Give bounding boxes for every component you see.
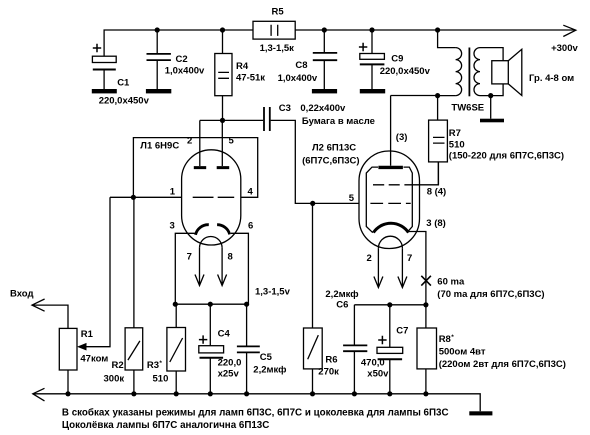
- svg-text:470,0: 470,0: [361, 358, 385, 369]
- svg-text:3 (8): 3 (8): [426, 218, 446, 229]
- svg-text:C8: C8: [295, 60, 307, 71]
- svg-text:Л2 6П13С: Л2 6П13С: [312, 143, 356, 154]
- svg-text:47-51к: 47-51к: [236, 73, 265, 84]
- svg-text:300к: 300к: [104, 374, 125, 385]
- svg-text:R5: R5: [272, 7, 285, 18]
- svg-text:500ом 4вт: 500ом 4вт: [439, 346, 486, 357]
- svg-text:8 (4): 8 (4): [427, 186, 447, 197]
- svg-text:Бумага в масле: Бумага в масле: [302, 116, 375, 127]
- svg-text:2: 2: [367, 253, 372, 264]
- svg-text:Л1 6Н9С: Л1 6Н9С: [140, 141, 179, 152]
- svg-text:4: 4: [248, 187, 254, 198]
- svg-text:R4: R4: [236, 61, 249, 72]
- svg-text:R6: R6: [325, 355, 337, 366]
- svg-text:1,0x400v: 1,0x400v: [278, 73, 318, 84]
- svg-text:В скобках указаны режимы для л: В скобках указаны режимы для ламп 6П3С, …: [62, 407, 449, 418]
- svg-text:(150-220 для 6П7С,6П3С): (150-220 для 6П7С,6П3С): [449, 150, 564, 161]
- svg-text:6: 6: [248, 221, 253, 232]
- svg-text:(3): (3): [396, 132, 408, 143]
- svg-text:C9: C9: [391, 53, 403, 64]
- svg-text:510: 510: [449, 140, 465, 151]
- svg-text:Цоколёвка лампы 6П7С аналогичн: Цоколёвка лампы 6П7С аналогична 6П13С: [62, 420, 269, 431]
- svg-text:+300v: +300v: [551, 43, 578, 54]
- svg-text:3: 3: [170, 221, 175, 232]
- svg-text:5: 5: [229, 136, 235, 147]
- svg-text:220,0: 220,0: [218, 358, 242, 369]
- svg-text:C3: C3: [279, 103, 291, 114]
- svg-text:Гр. 4-8 ом: Гр. 4-8 ом: [529, 73, 574, 84]
- svg-text:C1: C1: [117, 78, 130, 89]
- svg-text:R2: R2: [112, 360, 124, 371]
- svg-text:0,22x400v: 0,22x400v: [300, 103, 346, 114]
- svg-text:x50v: x50v: [367, 368, 389, 379]
- svg-text:47ком: 47ком: [80, 353, 108, 364]
- svg-text:8: 8: [228, 252, 233, 263]
- svg-text:5: 5: [349, 193, 355, 204]
- svg-text:R1: R1: [81, 329, 94, 340]
- svg-text:(220ом 2вт для 6П7С,6П3С): (220ом 2вт для 6П7С,6П3С): [439, 359, 566, 370]
- svg-text:C5: C5: [260, 352, 273, 363]
- svg-text:x25v: x25v: [218, 368, 240, 379]
- svg-text:R8: R8: [439, 334, 451, 345]
- svg-text:R3: R3: [147, 360, 159, 371]
- svg-text:1,3-1,5к: 1,3-1,5к: [260, 43, 295, 54]
- svg-text:2,2мкф: 2,2мкф: [253, 365, 286, 376]
- svg-text:7: 7: [407, 253, 412, 264]
- svg-text:(70 ma для 6П7С,6П3С): (70 ma для 6П7С,6П3С): [437, 289, 544, 300]
- svg-text:1,0x400v: 1,0x400v: [165, 65, 205, 76]
- svg-text:C4: C4: [218, 329, 231, 340]
- svg-text:C7: C7: [396, 326, 408, 337]
- svg-text:(6П7С,6П3С): (6П7С,6П3С): [302, 155, 359, 166]
- svg-text:С6: С6: [336, 299, 348, 310]
- svg-text:R7: R7: [449, 128, 461, 139]
- svg-text:2,2мкф: 2,2мкф: [325, 289, 358, 300]
- svg-text:220,0x450v: 220,0x450v: [380, 66, 431, 77]
- svg-text:TW6SE: TW6SE: [451, 103, 484, 114]
- svg-text:2: 2: [187, 136, 192, 147]
- svg-text:C2: C2: [176, 54, 188, 65]
- svg-text:1,3-1,5v: 1,3-1,5v: [255, 287, 291, 298]
- svg-text:510: 510: [153, 374, 169, 385]
- svg-text:1: 1: [170, 187, 176, 198]
- svg-text:7: 7: [187, 252, 192, 263]
- svg-text:220,0x450v: 220,0x450v: [99, 96, 150, 107]
- svg-text:Вход: Вход: [10, 288, 34, 299]
- svg-text:270к: 270к: [318, 366, 339, 377]
- svg-text:60 ma: 60 ma: [437, 277, 465, 288]
